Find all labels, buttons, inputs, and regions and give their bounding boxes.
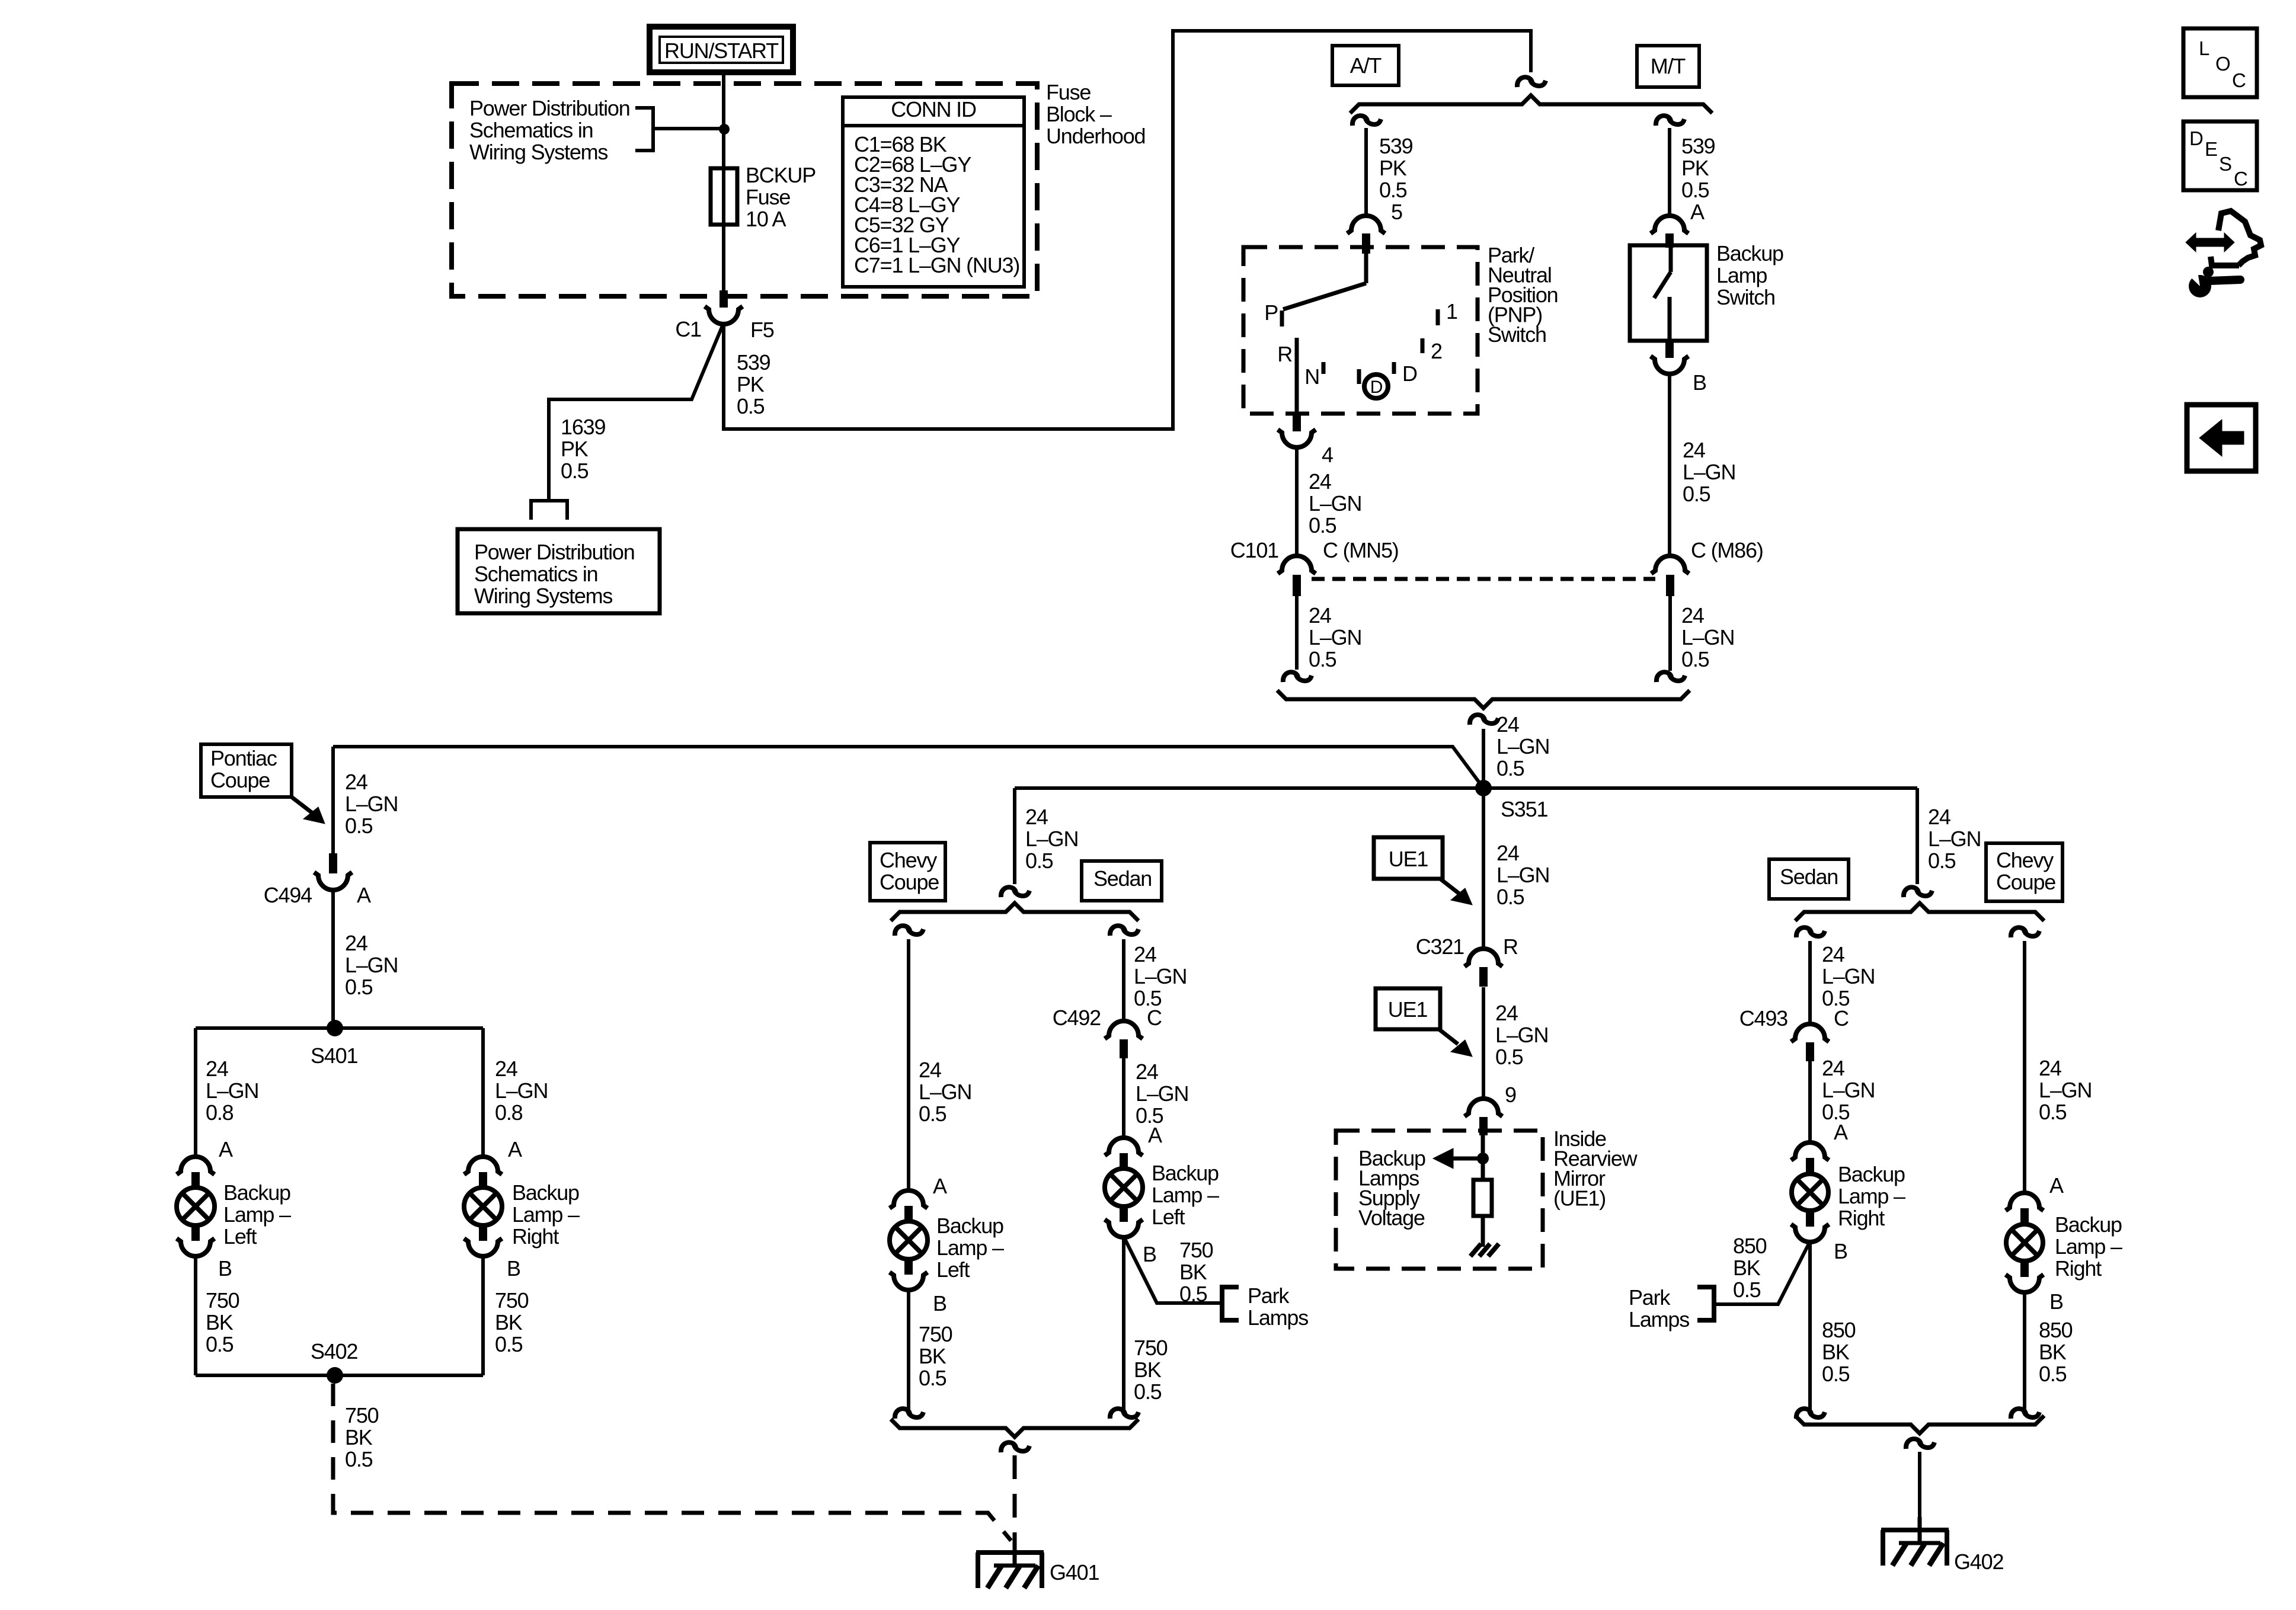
svg-text:24: 24 xyxy=(1496,841,1519,865)
svg-text:A: A xyxy=(357,883,371,907)
svg-text:BK: BK xyxy=(1134,1358,1162,1382)
label box Chevy Coupe (left) xyxy=(870,843,945,901)
svg-text:BCKUP: BCKUP xyxy=(746,163,816,187)
wire upper distribution to Pontiac xyxy=(333,747,1483,788)
wire 24 L-GN M/T xyxy=(1670,374,1735,556)
wire 24 L-GN below C(MN5) xyxy=(1297,596,1361,671)
svg-text:D: D xyxy=(1370,377,1383,397)
svg-text:Backup: Backup xyxy=(1838,1162,1905,1186)
svg-text:750: 750 xyxy=(495,1288,529,1313)
wire 24 L-GN Sedan upper xyxy=(1124,939,1187,1021)
svg-text:B: B xyxy=(1834,1239,1847,1263)
wire 850 BK Chevy right xyxy=(2025,1292,2073,1410)
wire 1639 PK branch xyxy=(549,323,724,501)
svg-text:Right: Right xyxy=(1838,1206,1885,1230)
svg-text:RUN/START: RUN/START xyxy=(664,39,779,63)
svg-text:A: A xyxy=(1690,200,1705,224)
svg-text:F5: F5 xyxy=(750,318,774,342)
connector pin B xyxy=(1651,341,1706,395)
wire break Sedan right branch xyxy=(1796,927,1825,937)
wire fuse to C1 xyxy=(722,225,725,292)
label box Sedan (right) xyxy=(1769,859,1849,899)
svg-text:C492: C492 xyxy=(1053,1006,1101,1030)
wire 539 PK M/T xyxy=(1670,128,1715,224)
svg-text:B: B xyxy=(218,1256,232,1281)
label box Chevy Coupe (right) xyxy=(1986,843,2062,901)
svg-text:0.5: 0.5 xyxy=(1681,647,1709,671)
svg-text:Backup: Backup xyxy=(1716,241,1783,265)
icon box back arrow xyxy=(2187,405,2256,471)
svg-text:Left: Left xyxy=(1152,1205,1185,1229)
svg-text:R: R xyxy=(1277,342,1292,366)
svg-text:PK: PK xyxy=(1379,156,1407,180)
wire break Sedan right bottom xyxy=(1796,1409,1825,1419)
connector A backup lamp left xyxy=(177,1137,233,1189)
svg-text:L–GN: L–GN xyxy=(1309,625,1361,649)
svg-text:E: E xyxy=(2205,138,2217,160)
svg-text:24: 24 xyxy=(495,1057,517,1081)
svg-text:850: 850 xyxy=(1733,1234,1767,1258)
svg-text:0.5: 0.5 xyxy=(345,814,373,838)
wire C321 to pin 9 xyxy=(1483,987,1548,1099)
svg-text:Park: Park xyxy=(1629,1285,1671,1310)
bracket park lamps (left) xyxy=(1222,1287,1239,1320)
svg-text:24: 24 xyxy=(919,1058,941,1082)
label Park Lamps (right) xyxy=(1629,1285,1689,1331)
wire 24 L-GN Pontiac upper xyxy=(333,747,398,856)
svg-text:539: 539 xyxy=(737,350,770,375)
icon box DESC xyxy=(2183,121,2257,190)
connector C1 F5 xyxy=(675,290,773,342)
wire label 1639 PK 0.5 xyxy=(561,415,605,483)
wire break A/T branch xyxy=(1352,116,1381,126)
merge brace middle group xyxy=(891,1419,1139,1437)
connector pin 4 xyxy=(1278,414,1333,467)
connector C321 R xyxy=(1416,934,1518,987)
svg-text:24: 24 xyxy=(1496,712,1519,737)
svg-text:750: 750 xyxy=(1134,1336,1168,1360)
svg-text:850: 850 xyxy=(2039,1318,2073,1342)
svg-text:A/T: A/T xyxy=(1350,53,1382,78)
svg-text:Sedan: Sedan xyxy=(1093,866,1152,891)
connector A Chevy left lamp xyxy=(890,1174,947,1223)
svg-text:0.5: 0.5 xyxy=(561,459,589,483)
svg-text:Underhood: Underhood xyxy=(1046,124,1145,148)
svg-text:C7=1 L–GN (NU3): C7=1 L–GN (NU3) xyxy=(854,253,1019,277)
label Backup Lamp Right (Pontiac) xyxy=(512,1180,580,1249)
svg-text:24: 24 xyxy=(1928,805,1950,829)
wire 24 L-GN Chevy right xyxy=(2025,941,2092,1193)
ground (mirror internal) xyxy=(1470,1244,1499,1256)
wire break middle split xyxy=(1001,887,1029,897)
wire left leg 24 L-GN 0.8 xyxy=(196,1028,258,1157)
wire left leg 750 BK xyxy=(196,1256,239,1375)
wire RUN/START to fuse xyxy=(722,72,725,168)
wire S401 bar xyxy=(196,1026,483,1030)
svg-text:B: B xyxy=(933,1291,946,1315)
svg-text:Coupe: Coupe xyxy=(880,870,939,894)
svg-text:B: B xyxy=(2049,1289,2063,1314)
svg-text:5: 5 xyxy=(1391,200,1402,224)
junction S402 xyxy=(311,1339,357,1384)
svg-text:9: 9 xyxy=(1505,1083,1516,1107)
wire 539 PK to A/T-M/T split xyxy=(724,31,1531,429)
svg-text:P: P xyxy=(1264,300,1278,325)
wire 24 L-GN Sedan right lower xyxy=(1810,1056,1875,1143)
label Backup Lamp Left (Pontiac) xyxy=(223,1180,291,1249)
svg-text:0.5: 0.5 xyxy=(1681,178,1709,202)
svg-text:A: A xyxy=(508,1137,522,1161)
wire break right split xyxy=(1904,887,1932,897)
svg-text:Lamp –: Lamp – xyxy=(1152,1183,1219,1207)
svg-text:Chevy: Chevy xyxy=(1996,848,2054,872)
svg-text:Park: Park xyxy=(1248,1283,1290,1308)
bracket park lamps (right) xyxy=(1697,1287,1714,1320)
wire 539 PK A/T xyxy=(1366,128,1413,224)
icon service info (arrow + wrench) xyxy=(2183,211,2261,297)
svg-text:UE1: UE1 xyxy=(1388,997,1428,1022)
svg-text:Left: Left xyxy=(936,1257,970,1282)
svg-text:Pontiac: Pontiac xyxy=(210,746,277,770)
PNP switch contacts xyxy=(1264,249,1457,415)
svg-text:750: 750 xyxy=(345,1403,379,1427)
svg-text:C1: C1 xyxy=(675,317,701,341)
backup lamp left (Sedan) xyxy=(1105,1169,1143,1206)
svg-text:0.5: 0.5 xyxy=(1496,756,1524,780)
wire 850 BK Sedan right xyxy=(1810,1241,1856,1410)
connector A Chevy right lamp xyxy=(2006,1173,2064,1225)
svg-text:Coupe: Coupe xyxy=(1996,870,2055,894)
svg-text:Chevy: Chevy xyxy=(880,848,937,872)
svg-text:Lamp –: Lamp – xyxy=(936,1235,1004,1260)
connector A backup lamp right xyxy=(464,1137,522,1189)
svg-text:10 A: 10 A xyxy=(746,207,786,231)
svg-text:BK: BK xyxy=(1179,1260,1207,1284)
svg-text:0.5: 0.5 xyxy=(495,1332,523,1356)
svg-text:Left: Left xyxy=(223,1224,257,1249)
svg-text:Power Distribution: Power Distribution xyxy=(469,96,630,120)
svg-text:BK: BK xyxy=(206,1310,234,1334)
svg-text:A: A xyxy=(1148,1123,1162,1147)
PNP switch dashed box xyxy=(1243,247,1478,414)
svg-text:A: A xyxy=(2049,1173,2064,1198)
svg-text:0.5: 0.5 xyxy=(345,1447,373,1471)
wire 24 L-GN pin4 xyxy=(1297,447,1361,556)
svg-text:Lamp –: Lamp – xyxy=(1838,1184,1905,1208)
label Backup Lamp Right (Sedan) xyxy=(1838,1162,1905,1230)
svg-text:Lamps: Lamps xyxy=(1248,1305,1308,1330)
svg-text:PK: PK xyxy=(1681,156,1709,180)
wire break Chevy left branch xyxy=(895,926,923,936)
label Backup Lamp Switch xyxy=(1716,241,1783,309)
svg-text:C: C xyxy=(2232,69,2246,91)
label Fuse Block Underhood xyxy=(1046,80,1145,148)
svg-text:S: S xyxy=(2219,153,2231,175)
connector B backup lamp right xyxy=(464,1224,520,1281)
wire break left above merge xyxy=(1283,672,1312,682)
svg-text:0.5: 0.5 xyxy=(2039,1362,2067,1386)
svg-text:BK: BK xyxy=(1822,1340,1850,1364)
svg-text:N: N xyxy=(1304,364,1319,389)
backup lamp right (Pontiac) xyxy=(464,1188,502,1225)
svg-text:L–GN: L–GN xyxy=(1496,863,1549,887)
wire S351 to C321 xyxy=(1483,788,1549,949)
bracket into reference box xyxy=(531,501,567,520)
wire label 539 PK 0.5 (feed) xyxy=(737,350,770,418)
label Backup Lamps Supply Voltage xyxy=(1358,1146,1425,1230)
label box A/T xyxy=(1332,46,1399,85)
wire 24 L-GN Pontiac lower xyxy=(333,889,398,1027)
svg-text:C: C xyxy=(2234,168,2247,190)
wire 24 L-GN Chevy left xyxy=(909,939,971,1191)
svg-text:L–GN: L–GN xyxy=(1134,964,1187,988)
label box RUN/START xyxy=(650,27,793,72)
connector C494 A xyxy=(264,853,371,907)
label box Sedan (left) xyxy=(1082,861,1162,901)
svg-text:0.5: 0.5 xyxy=(1179,1282,1207,1306)
label box UE1 (upper) xyxy=(1374,837,1472,905)
svg-text:0.5: 0.5 xyxy=(1309,513,1336,537)
svg-text:L–GN: L–GN xyxy=(1822,1078,1875,1102)
svg-text:C: C xyxy=(1834,1006,1849,1030)
wire break at split feed xyxy=(1517,77,1546,87)
svg-text:BK: BK xyxy=(2039,1340,2067,1364)
inside rearview mirror dashed box xyxy=(1336,1131,1543,1269)
svg-text:PK: PK xyxy=(561,437,589,461)
split brace A/T M/T xyxy=(1350,95,1712,113)
wire break Chevy left bottom xyxy=(895,1409,923,1419)
svg-text:BK: BK xyxy=(495,1310,523,1334)
note text Power Distribution Schematics (top) xyxy=(469,96,630,164)
connector B Chevy left lamp xyxy=(890,1257,946,1315)
svg-text:BK: BK xyxy=(1733,1256,1761,1280)
svg-text:C493: C493 xyxy=(1739,1006,1787,1030)
label box M/T xyxy=(1637,46,1699,87)
svg-text:Wiring Systems: Wiring Systems xyxy=(469,140,607,164)
reference box Power Distribution Schematics xyxy=(458,529,660,613)
CONN ID table xyxy=(843,97,1024,287)
svg-text:24: 24 xyxy=(345,931,367,955)
svg-text:750: 750 xyxy=(1179,1238,1213,1262)
wire right leg 24 L-GN 0.8 xyxy=(483,1028,548,1157)
wire break M/T branch xyxy=(1656,116,1684,126)
split brace Sedan/Chevy right xyxy=(1795,903,2044,921)
wire main distribution xyxy=(1015,786,1917,790)
svg-text:S351: S351 xyxy=(1501,797,1547,821)
label Park/Neutral Position (PNP) Switch xyxy=(1488,243,1558,347)
svg-text:0.5: 0.5 xyxy=(1309,647,1336,671)
svg-text:24: 24 xyxy=(1822,942,1844,966)
svg-text:Voltage: Voltage xyxy=(1358,1206,1425,1230)
connector B Sedan left lamp xyxy=(1105,1205,1156,1266)
wire 24 L-GN Sedan lower xyxy=(1124,1058,1188,1138)
dashed connector link C101 xyxy=(1312,577,1655,581)
connector pin 5 xyxy=(1347,216,1385,254)
fuse block dashed box xyxy=(452,84,1037,296)
wire S402 bar xyxy=(196,1374,483,1377)
svg-text:C (M86): C (M86) xyxy=(1691,538,1763,562)
svg-text:S401: S401 xyxy=(311,1044,357,1068)
wire park lamps tap (left) xyxy=(1124,1237,1220,1306)
svg-text:24: 24 xyxy=(206,1057,228,1081)
wire 24 L-GN to S351 xyxy=(1483,712,1549,788)
connector C101 C(MN5) xyxy=(1230,538,1399,596)
wire break right ground xyxy=(1906,1439,1934,1449)
svg-text:M/T: M/T xyxy=(1651,54,1686,78)
connector C493 C xyxy=(1739,1006,1849,1061)
svg-text:0.5: 0.5 xyxy=(206,1332,234,1356)
svg-text:BK: BK xyxy=(345,1425,373,1449)
svg-text:CONN ID: CONN ID xyxy=(891,97,976,121)
svg-text:C (MN5): C (MN5) xyxy=(1323,538,1399,562)
backup lamp left (Pontiac) xyxy=(177,1188,215,1225)
svg-text:Backup: Backup xyxy=(512,1180,579,1205)
backup lamp right (Sedan) xyxy=(1792,1174,1828,1211)
split brace Chevy/Sedan left xyxy=(891,903,1139,921)
wire break Sedan left branch xyxy=(1110,926,1139,936)
svg-text:0.5: 0.5 xyxy=(1683,482,1710,506)
svg-text:L–GN: L–GN xyxy=(206,1078,258,1103)
wire break Chevy right bottom xyxy=(2011,1409,2039,1419)
wire drop to right split xyxy=(1917,788,1981,884)
svg-text:C101: C101 xyxy=(1230,538,1278,562)
label Backup Lamp Right (Chevy) xyxy=(2055,1212,2122,1281)
svg-text:4: 4 xyxy=(1322,443,1333,467)
svg-text:Wiring Systems: Wiring Systems xyxy=(474,584,612,608)
wire 750 BK Sedan left xyxy=(1124,1237,1168,1410)
arrow Pontiac Coupe xyxy=(292,797,325,824)
svg-text:0.5: 0.5 xyxy=(1822,1362,1850,1386)
svg-text:24: 24 xyxy=(1025,805,1048,829)
wire break Sedan left bottom xyxy=(1110,1409,1139,1419)
svg-text:Sedan: Sedan xyxy=(1780,865,1838,889)
wire drop to middle split xyxy=(1015,788,1078,884)
svg-text:Power Distribution: Power Distribution xyxy=(474,540,635,564)
wire 24 L-GN below C(M86) xyxy=(1670,596,1734,671)
merge brace to S351 xyxy=(1277,690,1690,708)
connector B Sedan right lamp xyxy=(1791,1209,1847,1263)
dashed wire to G401 xyxy=(1013,1455,1017,1541)
ground G402 xyxy=(1881,1517,1949,1566)
svg-text:Backup: Backup xyxy=(223,1180,290,1205)
svg-text:Lamp –: Lamp – xyxy=(223,1202,291,1227)
wire break below merge xyxy=(1470,715,1498,725)
svg-text:Schematics in: Schematics in xyxy=(474,562,598,586)
label Inside Rearview Mirror (UE1) xyxy=(1553,1126,1638,1211)
junction S401 xyxy=(311,1020,357,1068)
svg-text:PK: PK xyxy=(737,372,765,396)
svg-text:L–GN: L–GN xyxy=(1496,734,1549,758)
connector A Sedan right lamp xyxy=(1791,1120,1848,1175)
svg-text:0.5: 0.5 xyxy=(919,1102,946,1126)
svg-text:24: 24 xyxy=(345,770,367,794)
svg-text:C: C xyxy=(1147,1006,1162,1030)
signal arrow Backup Lamps Supply Voltage xyxy=(1433,1148,1483,1169)
connector B backup lamp left xyxy=(177,1224,232,1281)
svg-text:A: A xyxy=(933,1174,947,1198)
backup lamp right (Chevy) xyxy=(2006,1224,2043,1261)
svg-text:C494: C494 xyxy=(264,883,312,907)
svg-text:Block –: Block – xyxy=(1046,102,1112,126)
junction dot mirror xyxy=(1477,1153,1489,1164)
svg-text:24: 24 xyxy=(1683,438,1705,462)
label G402 xyxy=(1954,1550,2003,1574)
label Park Lamps (left) xyxy=(1248,1283,1308,1330)
svg-text:24: 24 xyxy=(1681,603,1704,628)
svg-text:1: 1 xyxy=(1446,299,1457,324)
svg-text:1639: 1639 xyxy=(561,415,605,439)
svg-text:Lamp –: Lamp – xyxy=(512,1202,580,1227)
resistor (mirror) xyxy=(1473,1180,1492,1216)
svg-text:L–GN: L–GN xyxy=(919,1080,971,1104)
wire break right above merge xyxy=(1657,672,1685,682)
svg-text:539: 539 xyxy=(1681,134,1715,158)
svg-text:0.8: 0.8 xyxy=(206,1100,234,1125)
svg-text:24: 24 xyxy=(1309,603,1331,628)
svg-text:A: A xyxy=(219,1137,233,1161)
svg-text:24: 24 xyxy=(2039,1056,2061,1080)
svg-text:0.5: 0.5 xyxy=(2039,1100,2067,1124)
svg-text:L–GN: L–GN xyxy=(1928,827,1981,851)
svg-text:L–GN: L–GN xyxy=(2039,1078,2092,1102)
svg-text:R: R xyxy=(1503,934,1518,959)
connector B Chevy right lamp xyxy=(2006,1260,2063,1314)
svg-text:Fuse: Fuse xyxy=(746,185,790,209)
svg-text:Lamps: Lamps xyxy=(1629,1307,1689,1331)
svg-text:D: D xyxy=(2189,127,2203,149)
svg-text:24: 24 xyxy=(1136,1060,1158,1084)
label box Pontiac Coupe xyxy=(201,744,292,797)
svg-text:Coupe: Coupe xyxy=(210,768,270,792)
wire break middle ground xyxy=(1001,1442,1029,1452)
svg-text:L–GN: L–GN xyxy=(1495,1023,1548,1047)
wire park lamps tap (right) xyxy=(1716,1234,1810,1304)
connector C492 C xyxy=(1053,1006,1162,1058)
svg-text:Lamp –: Lamp – xyxy=(2055,1234,2122,1259)
svg-text:L–GN: L–GN xyxy=(345,953,398,977)
svg-text:0.8: 0.8 xyxy=(495,1100,523,1125)
PNP circled D indicator xyxy=(1364,375,1388,398)
connector A Sedan left lamp xyxy=(1105,1123,1162,1170)
junction S351 xyxy=(1475,780,1547,821)
svg-text:B: B xyxy=(1693,370,1706,395)
svg-text:Schematics in: Schematics in xyxy=(469,118,593,142)
svg-text:Switch: Switch xyxy=(1716,285,1775,309)
connector C101 C(M86) xyxy=(1651,538,1763,596)
svg-text:(UE1): (UE1) xyxy=(1553,1186,1606,1211)
svg-text:Lamp: Lamp xyxy=(1716,263,1767,287)
wire right leg 750 BK xyxy=(483,1256,529,1375)
svg-text:24: 24 xyxy=(1822,1056,1844,1080)
svg-text:L–GN: L–GN xyxy=(1681,625,1734,649)
wire 24 L-GN Sedan right upper xyxy=(1810,941,1875,1024)
svg-text:Backup: Backup xyxy=(1152,1161,1219,1185)
connector pin 9 xyxy=(1464,1083,1516,1135)
svg-text:B: B xyxy=(1143,1242,1156,1266)
svg-text:O: O xyxy=(2215,53,2230,75)
svg-text:L–GN: L–GN xyxy=(1025,827,1078,851)
svg-text:2: 2 xyxy=(1431,339,1442,363)
svg-text:24: 24 xyxy=(1134,942,1156,966)
svg-text:0.5: 0.5 xyxy=(1495,1045,1523,1069)
svg-text:L–GN: L–GN xyxy=(1136,1081,1188,1106)
svg-text:L–GN: L–GN xyxy=(1822,964,1875,988)
svg-text:Backup: Backup xyxy=(2055,1212,2122,1237)
wire break Chevy right branch xyxy=(2011,927,2039,937)
svg-text:Switch: Switch xyxy=(1488,322,1546,347)
svg-text:Fuse: Fuse xyxy=(1046,80,1091,104)
svg-text:0.5: 0.5 xyxy=(345,975,373,999)
